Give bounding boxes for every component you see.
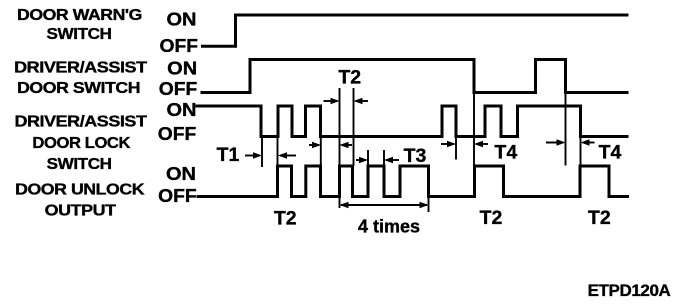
wire waveform DRIVER/ASSIST DOOR SWITCH <box>202 60 627 93</box>
svg-text:DRIVER/ASSIST: DRIVER/ASSIST <box>14 60 147 77</box>
svg-text:T2: T2 <box>480 207 503 229</box>
wire T2 right arrow <box>354 98 369 105</box>
node T3 dimension bar left at x=368 <box>367 150 369 166</box>
node T2 dimension bar right at x=353.5 <box>353 88 355 166</box>
svg-text:SWITCH: SWITCH <box>47 26 112 43</box>
svg-text:ON: ON <box>166 164 196 184</box>
wire arrow pair measuring 321 to 339.5, left arrow <box>309 142 321 149</box>
wire T4 second right arrow <box>581 139 595 146</box>
label T2 bottom second <box>480 207 503 229</box>
label T3 <box>404 145 427 167</box>
label OFF row4 <box>158 186 197 206</box>
node 4-times dimension bar right at x=428.5 <box>428 197 430 213</box>
label ETPD120A <box>588 281 671 300</box>
label ON row2 <box>167 59 197 79</box>
label OFF row1 <box>160 36 199 56</box>
wire T4 first left arrow <box>441 141 456 148</box>
label DOOR WARN'G SWITCH <box>17 7 142 43</box>
svg-text:DOOR SWITCH: DOOR SWITCH <box>17 80 140 97</box>
svg-text:ETPD120A: ETPD120A <box>588 281 671 300</box>
svg-text:SWITCH: SWITCH <box>47 156 112 173</box>
wire T3 left arrow <box>356 157 368 164</box>
wire waveform DOOR WARN'G SWITCH <box>203 15 628 46</box>
svg-text:OFF: OFF <box>160 36 199 56</box>
label T2 bottom first <box>274 208 297 230</box>
wire arrow pair measuring 321 to 339.5, right arrow <box>340 142 353 149</box>
wire waveform DRIVER/ASSIST DOOR LOCK SWITCH <box>197 106 627 137</box>
label DRIVER/ASSIST DOOR SWITCH <box>14 60 147 98</box>
node T3 dimension bar right at x=384 <box>383 150 385 166</box>
label OFF row2 <box>159 79 198 99</box>
label DOOR UNLOCK OUTPUT <box>15 182 145 220</box>
node T2 dimension bar left at x=339.5 <box>339 88 341 166</box>
svg-text:T4: T4 <box>599 141 622 163</box>
wire T1 right arrow <box>278 152 296 159</box>
wire 4-times double arrow <box>340 202 429 209</box>
svg-text:DOOR LOCK: DOOR LOCK <box>32 135 131 152</box>
label T2 bottom third <box>588 207 611 229</box>
svg-text:T1: T1 <box>217 144 240 166</box>
svg-text:OUTPUT: OUTPUT <box>45 202 117 219</box>
label T4 second <box>599 141 622 163</box>
svg-text:ON: ON <box>167 100 197 120</box>
wire T3 right arrow <box>384 157 399 164</box>
label T4 first <box>494 142 517 164</box>
node dimension bar: lock-switch fall edge extension at x=580.5 <box>580 137 582 166</box>
node dimension bar: door-switch fall edge extension at x=474 <box>473 93 475 170</box>
wire T4 first right arrow <box>474 141 488 148</box>
wire waveform DOOR UNLOCK OUTPUT <box>198 166 628 197</box>
wire T1 left arrow <box>245 152 262 159</box>
svg-text:T2: T2 <box>274 208 297 230</box>
svg-text:OFF: OFF <box>159 79 198 99</box>
svg-text:ON: ON <box>167 10 197 30</box>
svg-text:ON: ON <box>167 59 197 79</box>
label OFF row3 <box>158 124 197 144</box>
svg-text:T4: T4 <box>494 142 517 164</box>
svg-text:DRIVER/ASSIST: DRIVER/ASSIST <box>15 114 148 131</box>
node dimension bar: lock-switch fall edge extension at x=320.8 <box>320 137 322 165</box>
label DRIVER/ASSIST DOOR LOCK SWITCH <box>15 114 148 173</box>
svg-text:DOOR WARN'G: DOOR WARN'G <box>17 7 142 24</box>
node 4-times dimension bar left at x=339.5 <box>339 197 341 209</box>
node dimension bar: unlock-output rise edge extension at x=277.5 <box>277 137 279 196</box>
svg-text:T2: T2 <box>338 67 361 89</box>
wire T4 second left arrow <box>546 139 566 146</box>
label 4 times <box>358 216 420 236</box>
svg-text:DOOR UNLOCK: DOOR UNLOCK <box>15 182 145 199</box>
label T2 top <box>338 67 361 89</box>
node dimension bar: door-switch second fall edge extension at x=566 <box>565 93 567 166</box>
svg-text:T2: T2 <box>588 207 611 229</box>
label ON row3 <box>167 100 197 120</box>
label ON row1 <box>167 10 197 30</box>
svg-text:4 times: 4 times <box>358 216 420 236</box>
svg-text:T3: T3 <box>404 145 427 167</box>
svg-text:OFF: OFF <box>158 124 197 144</box>
svg-text:OFF: OFF <box>158 186 197 206</box>
label ON row4 <box>166 164 196 184</box>
node dimension bar: lock-switch fall edge extension at x=456 <box>455 137 457 160</box>
wire T2 left arrow <box>324 98 340 105</box>
label T1 <box>217 144 240 166</box>
node dimension bar: lock-switch fall edge extension at x=262 <box>261 137 263 167</box>
